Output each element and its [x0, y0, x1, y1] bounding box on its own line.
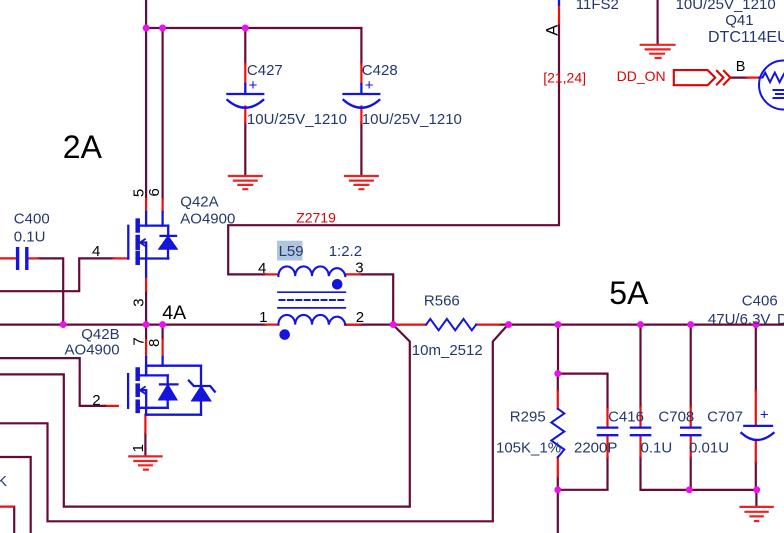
svg-text:11FS2: 11FS2 [576, 0, 619, 13]
svg-text:1:2.2: 1:2.2 [329, 243, 362, 260]
svg-text:C400: C400 [14, 210, 50, 227]
svg-text:+: + [365, 77, 374, 94]
svg-text:0.01U: 0.01U [689, 440, 729, 457]
svg-text:2: 2 [92, 392, 100, 409]
svg-text:A: A [543, 25, 561, 36]
svg-text:[21,24]: [21,24] [543, 70, 586, 86]
svg-text:105K_1%: 105K_1% [496, 440, 561, 457]
svg-text:C406: C406 [742, 292, 778, 309]
svg-text:B: B [736, 59, 746, 75]
svg-text:D: D [777, 311, 784, 328]
svg-text:Z2719: Z2719 [296, 209, 336, 225]
svg-text:C416: C416 [608, 408, 644, 425]
svg-text:C708: C708 [658, 408, 694, 425]
svg-text:4: 4 [258, 260, 266, 277]
svg-text:R295: R295 [510, 408, 546, 425]
svg-text:10m_2512: 10m_2512 [412, 342, 483, 359]
svg-text:+: + [249, 77, 258, 94]
svg-text:4: 4 [92, 243, 100, 260]
svg-text:2A: 2A [63, 129, 103, 165]
svg-text:6: 6 [146, 188, 163, 196]
svg-text:10U/25V_1210: 10U/25V_1210 [362, 111, 462, 128]
svg-text:K: K [0, 473, 7, 490]
svg-text:R566: R566 [424, 292, 460, 309]
svg-text:AO4900: AO4900 [65, 341, 120, 358]
svg-text:1: 1 [130, 444, 147, 452]
svg-text:3: 3 [355, 260, 363, 277]
svg-text:Q41: Q41 [725, 12, 753, 29]
svg-text:0.1U: 0.1U [641, 440, 673, 457]
svg-text:+: + [760, 407, 769, 424]
svg-text:Q42A: Q42A [180, 194, 218, 211]
svg-text:C707: C707 [707, 408, 743, 425]
svg-text:2: 2 [356, 309, 364, 326]
svg-text:AO4900: AO4900 [180, 211, 235, 228]
svg-text:DD_ON: DD_ON [617, 68, 666, 84]
svg-text:DTC114EU: DTC114EU [708, 29, 784, 46]
svg-text:0.1U: 0.1U [14, 228, 46, 245]
svg-text:47U/6.3V: 47U/6.3V [708, 311, 771, 328]
svg-text:1: 1 [259, 309, 267, 326]
svg-text:L59: L59 [279, 243, 304, 260]
svg-text:3: 3 [131, 298, 148, 306]
svg-text:2200P: 2200P [574, 440, 617, 457]
svg-text:4A: 4A [162, 302, 186, 324]
svg-text:10U/25V_1210: 10U/25V_1210 [247, 111, 347, 128]
svg-text:5A: 5A [609, 275, 649, 311]
svg-text:8: 8 [146, 339, 163, 347]
